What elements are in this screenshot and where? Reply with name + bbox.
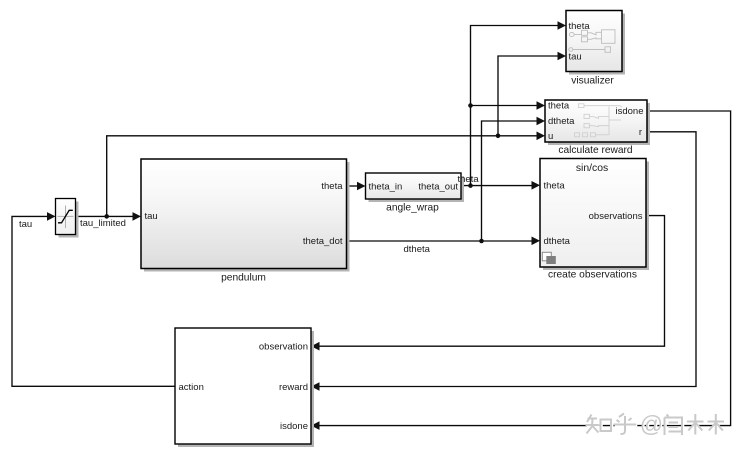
- svg-text:@: @: [640, 411, 663, 437]
- svg-text:u: u: [548, 131, 553, 142]
- node theta junction: [468, 183, 473, 188]
- wire r: calculate reward r output to agent reward input: [311, 132, 696, 391]
- wire theta to calculate reward: [471, 101, 546, 110]
- svg-text:reward: reward: [279, 382, 308, 393]
- svg-text:theta: theta: [321, 181, 343, 192]
- svg-text:tau: tau: [145, 211, 158, 222]
- svg-text:dtheta: dtheta: [404, 244, 431, 255]
- visualizer block: [566, 11, 625, 75]
- svg-text:theta: theta: [458, 174, 480, 185]
- calculate reward block: [545, 100, 650, 145]
- svg-text:create observations: create observations: [548, 270, 637, 281]
- svg-text:pendulum: pendulum: [221, 273, 266, 284]
- svg-text:r: r: [639, 127, 642, 138]
- wire u: tau_limited junction up to calculate reward u input: [107, 132, 545, 217]
- watermark zhihu: [586, 411, 726, 438]
- wire isdone: calculate reward isdone output to agent isdone input: [311, 111, 731, 430]
- svg-text:theta: theta: [544, 181, 566, 192]
- wire action: agent action output to saturation input: [12, 212, 175, 386]
- svg-text:action: action: [179, 382, 204, 393]
- svg-text:isdone: isdone: [280, 421, 308, 432]
- svg-text:tau: tau: [19, 219, 32, 230]
- svg-text:theta: theta: [548, 101, 570, 112]
- svg-text:theta_dot: theta_dot: [303, 236, 343, 247]
- svg-text:theta_in: theta_in: [369, 182, 403, 193]
- svg-text:isdone: isdone: [616, 106, 644, 117]
- svg-text:angle_wrap: angle_wrap: [386, 203, 439, 214]
- node theta junction 2: [468, 103, 473, 108]
- node dtheta junction: [479, 239, 484, 244]
- svg-text:tau_limited: tau_limited: [80, 218, 126, 229]
- node u junction: [496, 134, 501, 139]
- wire theta_wrapped: angle_wrap output to create observations theta input: [461, 181, 540, 190]
- pendulum subsystem block: [141, 159, 350, 272]
- wire dtheta up to calculate reward dtheta input: [482, 117, 546, 241]
- angle_wrap block: [366, 173, 465, 202]
- wire theta: pendulum theta output to angle_wrap input: [347, 182, 366, 191]
- wire theta up: junction to calculate reward theta and visualizer theta: [471, 21, 567, 185]
- svg-text:dtheta: dtheta: [548, 116, 575, 127]
- node tau_limited junction: [104, 214, 109, 219]
- svg-text:dtheta: dtheta: [544, 236, 571, 247]
- wire tau_limited: saturation output to pendulum tau input: [76, 212, 142, 221]
- create observations block: [540, 159, 649, 271]
- svg-text:theta_out: theta_out: [418, 182, 458, 193]
- svg-text:tau: tau: [569, 51, 582, 62]
- svg-text:observations: observations: [589, 211, 643, 222]
- wire tau to visualizer: branch up to visualizer tau input: [498, 52, 566, 136]
- svg-text:observation: observation: [259, 342, 308, 353]
- svg-text:calculate reward: calculate reward: [558, 145, 633, 156]
- svg-text:visualizer: visualizer: [571, 76, 614, 87]
- svg-text:sin/cos: sin/cos: [576, 163, 608, 174]
- saturation block: [56, 199, 79, 238]
- wire observations: create observations output to agent observation input: [311, 216, 665, 351]
- wire dtheta: pendulum theta_dot output to create observations dtheta input: [347, 237, 541, 246]
- agent block: [175, 328, 314, 447]
